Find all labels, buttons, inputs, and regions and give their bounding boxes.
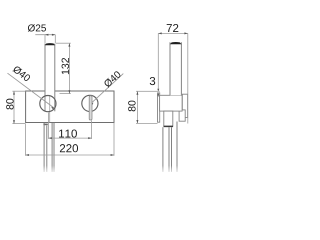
label O40 right xyxy=(105,71,121,88)
side view: thin wall plate xyxy=(158,93,160,122)
leader line right O40 xyxy=(90,74,123,105)
side view: in-wall body lower step xyxy=(179,110,185,121)
dim O25 xyxy=(28,24,55,43)
dim 110 xyxy=(48,113,91,140)
side view: outlet step below block xyxy=(164,111,173,126)
dim 132 xyxy=(56,43,71,93)
supply pipe connector below plate xyxy=(43,124,47,126)
spout tube (front view) xyxy=(45,44,55,123)
side view: pipes fading xyxy=(163,122,177,173)
side view: spout cap xyxy=(170,42,182,44)
escutcheon circle right (front view) xyxy=(82,95,98,111)
dim 3 xyxy=(146,33,160,96)
leader right arrowhead xyxy=(90,103,93,105)
dim 80 right xyxy=(128,91,157,123)
supply pipes (front view, fading) xyxy=(44,123,54,172)
dim 72 xyxy=(158,24,188,124)
escutcheon circle left (front view) xyxy=(40,96,56,112)
side view: outlet dark bottom edge xyxy=(164,125,173,127)
leader left arrowhead xyxy=(51,107,55,109)
side view: spout tube xyxy=(170,42,181,95)
lever handle (front view) xyxy=(89,96,92,120)
label O40 left xyxy=(12,67,30,81)
side view: in-wall body upper xyxy=(182,94,187,117)
side view: valve body block xyxy=(160,95,183,111)
dim 80 left xyxy=(6,91,25,123)
wall plate (front view) xyxy=(26,91,114,123)
leader line left O40 xyxy=(8,73,55,108)
dim 220 xyxy=(26,123,115,156)
spout cap (front view) xyxy=(45,43,55,45)
